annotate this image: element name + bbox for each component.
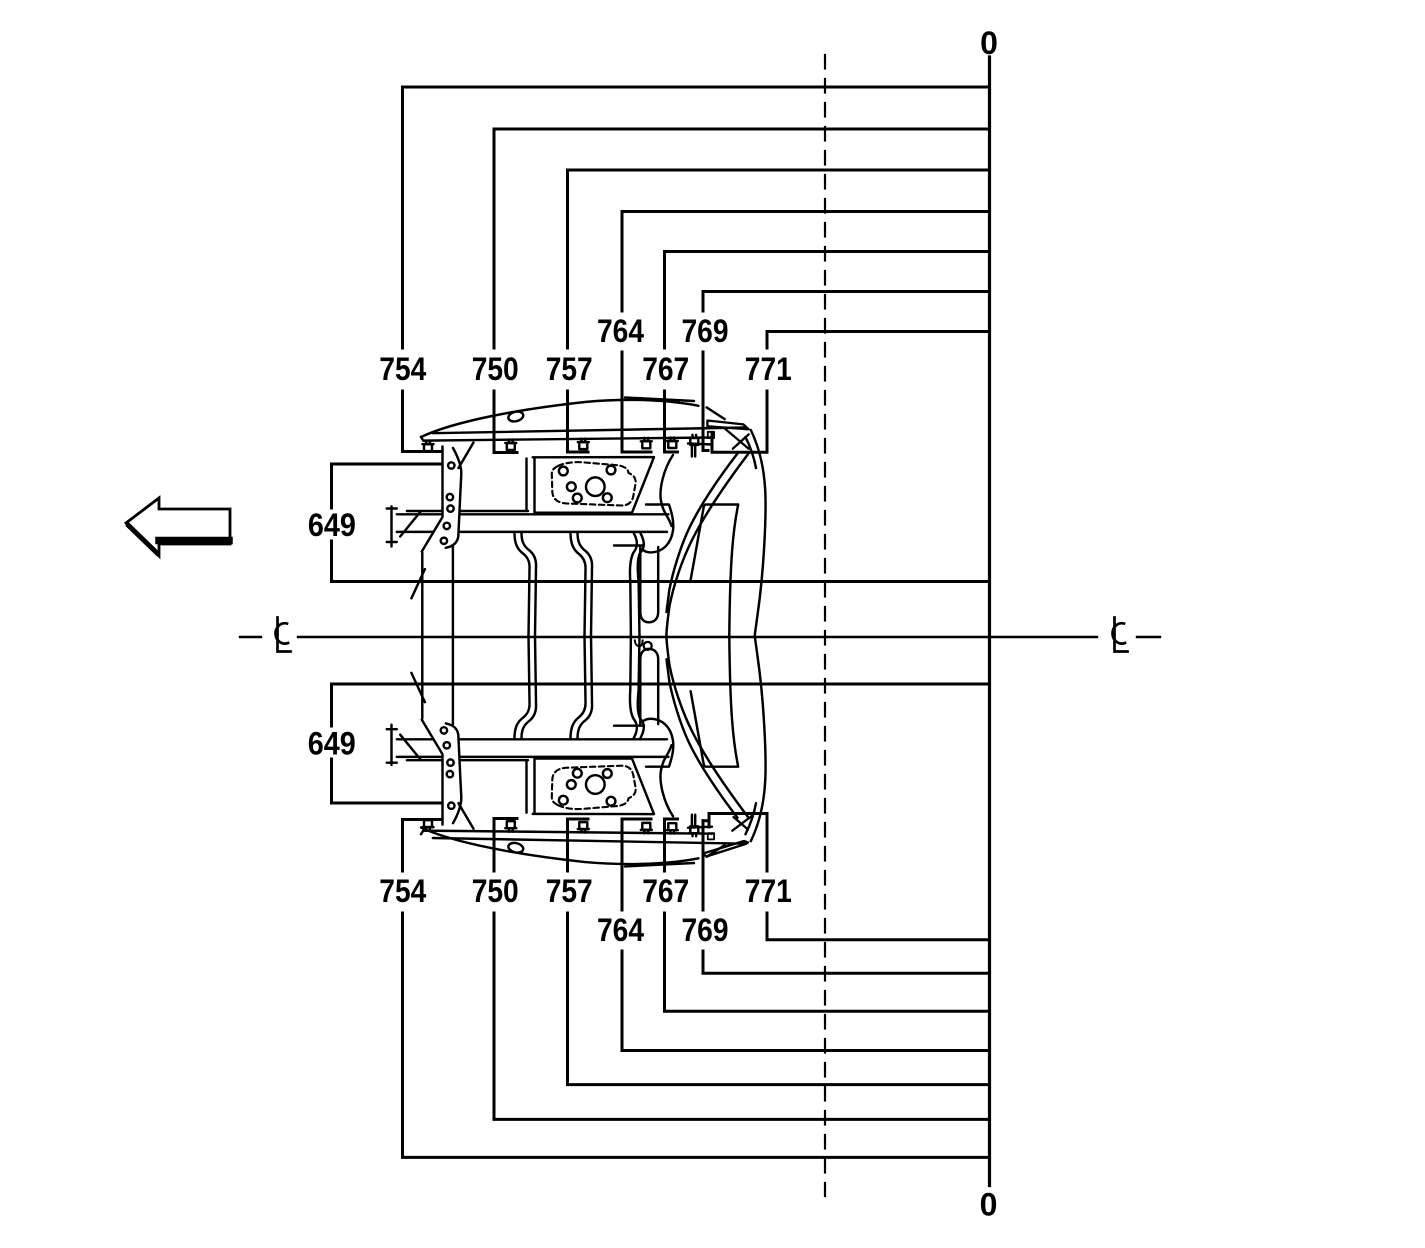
svg-text:767: 767 xyxy=(642,351,689,387)
plate small holes xyxy=(559,466,616,503)
svg-text:750: 750 xyxy=(472,873,519,909)
dimension line 757 top xyxy=(568,170,990,452)
svg-text:757: 757 xyxy=(546,351,593,387)
wheel arch outer curve xyxy=(751,430,766,636)
wheel arch inner line xyxy=(746,437,757,468)
X mark 771 top xyxy=(724,428,749,449)
tie bar top edge xyxy=(433,428,746,434)
svg-text:0: 0 xyxy=(980,25,998,61)
dimension 649 top xyxy=(332,464,990,582)
svg-text:754: 754 xyxy=(379,873,426,909)
svg-text:750: 750 xyxy=(472,351,519,387)
dimension line 757 bottom xyxy=(568,819,990,1085)
centerline symbol right xyxy=(1113,618,1128,652)
datum line 0 xyxy=(988,57,991,1186)
svg-text:771: 771 xyxy=(745,351,792,387)
small notch near centerline xyxy=(635,641,643,647)
dimension line 750 bottom xyxy=(494,819,990,1120)
centerline symbol left xyxy=(276,618,291,652)
bumper flange xyxy=(407,510,528,512)
dimension line 750 top xyxy=(494,129,990,453)
cowl S curve xyxy=(661,455,674,526)
svg-text:764: 764 xyxy=(597,912,644,948)
bracket holes xyxy=(441,462,455,544)
pillar left curves xyxy=(630,533,637,635)
bar end arch xyxy=(643,505,673,553)
fender panel bottom (mirror, slightly squashed) xyxy=(421,828,725,867)
dimension line 771 bottom xyxy=(709,814,990,940)
tie bar bottom edge xyxy=(421,437,712,445)
fender wedge fold bottom xyxy=(703,841,748,857)
slanted bracket xyxy=(422,447,462,552)
dimension line 754 bottom xyxy=(403,820,990,1158)
fender wedge fold top xyxy=(707,421,748,430)
dimension line 764 bottom xyxy=(622,819,990,1051)
dimension line 764 top xyxy=(622,212,990,453)
svg-text:0: 0 xyxy=(980,1187,998,1223)
svg-text:649: 649 xyxy=(308,507,356,543)
rail jog A xyxy=(515,533,530,636)
horizontal centerline xyxy=(240,636,1160,638)
dimension line 767 top xyxy=(665,252,990,453)
pocket panel xyxy=(691,505,739,636)
dimension 649 bottom xyxy=(332,684,990,803)
plate left edge xyxy=(527,458,535,514)
svg-text:757: 757 xyxy=(546,873,593,909)
dimension line 754 top xyxy=(403,87,990,452)
svg-text:764: 764 xyxy=(597,313,644,349)
bracket top diagonal xyxy=(459,443,474,469)
bumper end cap xyxy=(387,506,397,546)
vehicle structure drawing top half xyxy=(387,428,766,636)
dimension line 771 top xyxy=(712,332,990,453)
dimension line 769 bottom xyxy=(703,821,990,974)
plate outline xyxy=(533,457,654,513)
dimension line 769 top xyxy=(703,292,990,451)
bolt 769 xyxy=(689,435,700,457)
svg-text:649: 649 xyxy=(308,726,356,762)
dimension line 767 bottom xyxy=(665,819,990,1011)
small hole near centerline xyxy=(644,642,652,650)
svg-text:754: 754 xyxy=(379,351,426,387)
svg-text:767: 767 xyxy=(642,873,689,909)
svg-text:771: 771 xyxy=(745,873,792,909)
X mark 771 bottom xyxy=(732,816,751,831)
pillar slot xyxy=(640,547,658,622)
direction arrow xyxy=(126,498,230,556)
plate gasket dashed xyxy=(552,462,636,505)
bolt 771 xyxy=(708,432,714,438)
bolt 757 xyxy=(578,439,589,450)
connector lines xyxy=(614,544,644,546)
frame rail left xyxy=(422,547,453,636)
rail jog B xyxy=(571,533,586,636)
horn diagonal xyxy=(400,512,425,599)
bolt 764 xyxy=(641,438,652,449)
dashed centerline vertical xyxy=(824,55,826,1196)
bolt 754 xyxy=(423,441,434,452)
bumper bar xyxy=(397,514,669,532)
plate big hole xyxy=(586,477,605,496)
bolt 750 xyxy=(505,440,516,451)
wheelhouse diagonal pair xyxy=(666,454,748,636)
bolt 767 xyxy=(667,438,678,449)
fender panel top xyxy=(421,398,725,438)
svg-text:769: 769 xyxy=(682,912,729,948)
svg-text:769: 769 xyxy=(682,313,729,349)
